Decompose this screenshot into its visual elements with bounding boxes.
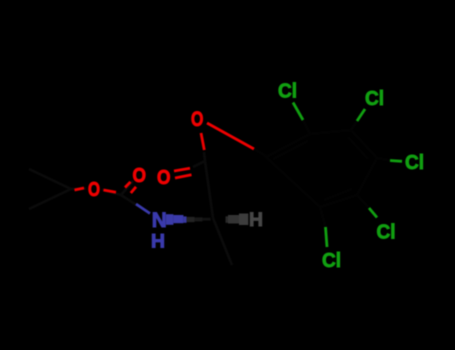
bond C2 to Cl1 green half [293,103,303,121]
wedge bond N to Calpha dark step 1 [187,217,195,222]
hash wedge Calpha to H segment 1 [226,216,229,223]
bond O4 to ring C1 dark part [254,149,266,156]
wedge bond N to Calpha blue step 1 [166,214,173,225]
bond C6 to Cl5 dark half [320,207,326,227]
svg-text:Cl: Cl [365,88,384,110]
svg-text:O: O [157,166,171,189]
bond C4 to Cl3 dark half [377,158,390,161]
bond C3 to Cl2 dark half [351,121,357,130]
svg-text:H: H [249,209,263,231]
ester C=O3 double bond red line 1 [174,168,190,171]
bond ester C to O4 red half [201,133,204,150]
ester C=O3 double bond red line 2 [175,175,192,178]
ester C=O3 double bond dark stub [193,161,205,167]
svg-text:O: O [88,178,100,201]
bond carbamate C to N blue half [136,204,150,214]
bond C4 to Cl3 green half [390,159,402,163]
svg-text:Cl: Cl [377,222,396,244]
benzene ring inner double bond C3C4 [348,137,368,159]
tert-butyl methyl bond lower [29,189,71,209]
wedge bond N to Calpha blue step 3 [183,216,186,222]
carbamate C=O2 double bond dark stub [121,181,133,195]
svg-text:O: O [191,107,203,131]
wedge bond N to Calpha dark step 2 [195,217,203,221]
hash wedge Calpha to H segment 3 [239,214,248,226]
bond Calpha to ester C [205,161,213,218]
wedge bond N to Calpha blue step 2 [173,215,183,223]
bond C(CH3)3 to O1 red half [75,188,85,190]
carbamate C=O2 double bond red line 1 [125,182,131,188]
svg-text:O: O [133,164,147,187]
svg-text:Cl: Cl [278,81,297,103]
carbamate C=O2 double bond red line 2 [131,187,136,193]
bond C(CH3)3 to O1 dark half [71,187,86,190]
benzene ring [266,130,377,207]
svg-text:Cl: Cl [405,152,424,174]
bond Calpha to methyl [213,218,232,265]
bond C6 to Cl5 green half [326,227,328,247]
tert-butyl methyl bond upper [29,169,71,189]
bond C2 to Cl1 dark half [303,120,310,134]
bond C5 to Cl4 dark half [357,195,369,208]
svg-text:N: N [152,208,167,232]
benzene ring inner double bond C1C2 [273,141,308,159]
bond ester C to O4 dark stub [204,152,205,161]
svg-text:Cl: Cl [322,250,341,272]
hash wedge Calpha to H segment 2 [228,215,239,224]
benzene ring inner double bond C5C6 [324,189,352,200]
bond C5 to Cl4 green half [369,208,377,218]
bond C3 to Cl2 green half [357,109,365,121]
bond O1 to carbamate C red half [104,190,117,192]
bond O4 to ring C1 red part [207,123,254,149]
bond O1 to carbamate C dark half [102,190,121,196]
bond carbamate C to N dark half [121,195,138,206]
svg-text:H: H [151,232,165,253]
wedge bond N to Calpha dark step 3 [203,218,211,221]
